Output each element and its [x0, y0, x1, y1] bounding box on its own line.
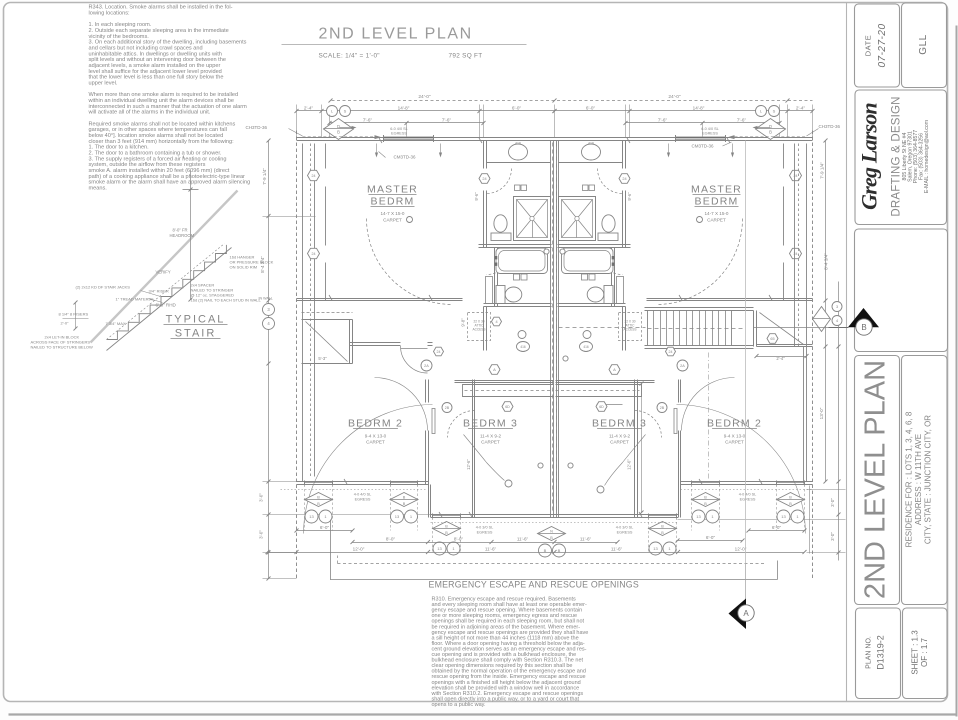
svg-text:11'-6": 11'-6": [485, 547, 497, 552]
stair detail steps: [107, 245, 227, 340]
window symbol bedrm2 left B: [390, 493, 418, 507]
circle 2B left: [442, 403, 452, 413]
interior dim line right bedrm2: [641, 384, 643, 513]
svg-text:EGRESS: EGRESS: [391, 131, 407, 135]
svg-text:HEADROOM: HEADROOM: [170, 233, 195, 238]
left unit master bath west wall: [483, 141, 485, 169]
svg-text:ADDRESS : W 11TH AVE: ADDRESS : W 11TH AVE: [914, 434, 923, 525]
svg-text:24: 24: [622, 177, 626, 181]
svg-text:CH3TD-36: CH3TD-36: [246, 125, 268, 130]
bottom wall bedrm2 right: [681, 481, 813, 483]
svg-text:D: D: [337, 124, 340, 129]
stair stringer lines: [107, 248, 232, 351]
svg-text:13'-0": 13'-0": [819, 407, 824, 419]
emergency bracket: [330, 520, 332, 580]
titleblock box sheet title 2ND LEVEL PLAN: [855, 356, 900, 605]
svg-text:STAIR: STAIR: [175, 328, 217, 340]
window symbol bedrm3 right: [649, 522, 677, 536]
right unit master bath west wall: [622, 141, 624, 169]
titleblock box firm: [855, 90, 947, 225]
titleblock box DATE: [855, 4, 900, 87]
marker A leader line: [745, 564, 747, 600]
hex symbol A right hall: [609, 365, 620, 375]
svg-text:14'-8": 14'-8": [398, 106, 410, 111]
svg-text:will activate all of the alarm: will activate all of the alarms in the i…: [88, 110, 211, 116]
left unit hall door arc: [401, 346, 428, 373]
svg-text:6'-8" RHD: 6'-8" RHD: [156, 303, 177, 308]
svg-text:E-MAIL : homedesign@aol.com: E-MAIL : homedesign@aol.com: [924, 120, 930, 193]
svg-text:opens to a public way.: opens to a public way.: [432, 702, 486, 708]
svg-text:BEDRM: BEDRM: [695, 196, 739, 208]
svg-text:13: 13: [696, 514, 701, 519]
left bedrm2 door swing arc: [304, 405, 433, 534]
svg-text:4: 4: [495, 320, 497, 324]
right closet door diagonal: [760, 313, 804, 345]
svg-text:OF : 1.7: OF : 1.7: [920, 638, 929, 667]
svg-text:4: 4: [836, 319, 838, 323]
svg-text:9'-6": 9'-6": [627, 192, 632, 201]
hall small circle right: [583, 331, 591, 339]
right unit bath2 door arc: [597, 249, 623, 275]
svg-text:CARPET: CARPET: [725, 440, 744, 445]
svg-text:12'-0": 12'-0": [353, 547, 365, 552]
left unit medicine cabinets: [515, 185, 521, 191]
svg-text:24: 24: [312, 252, 316, 256]
right wall extension to dims: [809, 486, 811, 554]
stair direction dashes: [648, 328, 746, 330]
stair down arrow: [597, 404, 623, 406]
bottom dim row B: [353, 542, 618, 544]
svg-text:BEDRM: BEDRM: [371, 196, 415, 208]
svg-text:CARPET: CARPET: [366, 440, 385, 445]
left unit washer dryer boxes: [514, 274, 520, 280]
svg-text:B: B: [789, 496, 792, 500]
party wall insulation dashes: [552, 143, 554, 513]
scan paper edge bottom: [9, 713, 957, 715]
svg-text:B: B: [317, 502, 320, 506]
window diamond top right: [756, 119, 786, 140]
svg-text:(2) 2x12 KD DF STAIR JACKS: (2) 2x12 KD DF STAIR JACKS: [76, 285, 131, 290]
svg-text:CH3TD-36: CH3TD-36: [819, 124, 841, 129]
right unit stairwell shaft: [556, 384, 642, 386]
svg-text:B: B: [403, 496, 406, 500]
svg-text:6'-0": 6'-0": [706, 535, 716, 540]
right unit tub: [562, 248, 614, 274]
left unit linen cabinet: [486, 277, 493, 304]
svg-text:upper level.: upper level.: [89, 80, 118, 86]
svg-text:8 1/4" 8 RISERS: 8 1/4" 8 RISERS: [59, 312, 89, 317]
svg-text:ACCESS: ACCESS: [623, 328, 636, 332]
svg-text:8'-0" FR: 8'-0" FR: [173, 228, 188, 233]
svg-text:14'-8": 14'-8": [693, 106, 705, 111]
outlet ticks: [379, 138, 382, 143]
section cut line A vertical: [745, 141, 747, 564]
svg-text:9-4 X 13-0: 9-4 X 13-0: [365, 434, 387, 439]
svg-text:2'-0": 2'-0": [61, 321, 70, 326]
svg-text:2'-4": 2'-4": [796, 106, 806, 111]
bottom wall bedrm3 left+right: [431, 514, 678, 516]
titleblock box plan no: [856, 608, 901, 699]
svg-text:2B: 2B: [660, 406, 665, 410]
svg-text:EGRESS: EGRESS: [477, 531, 493, 535]
left unit hall east wall: [483, 307, 485, 351]
hex 6D bedrm3 right: [596, 402, 607, 412]
section marker B black triangle: [848, 308, 879, 327]
svg-text:8'-4 3/4": 8'-4 3/4": [824, 253, 829, 270]
left unit bath door arc: [487, 169, 512, 194]
left unit bath bottom wall: [484, 303, 552, 305]
plan top exterior wall: [297, 137, 813, 139]
section cut line B horizontal: [559, 327, 646, 329]
svg-text:SCALE: 1/4" = 1'-0": SCALE: 1/4" = 1'-0": [319, 53, 380, 60]
dim row 2 right unit: [555, 110, 813, 112]
left unit master bedroom bottom wall: [297, 298, 463, 300]
window symbol bedrm2 left A: [305, 493, 333, 507]
window projection dashed lines: [304, 485, 306, 531]
svg-text:792 SQ FT: 792 SQ FT: [449, 53, 483, 60]
smoke/light circles left: [327, 106, 338, 117]
left bedrm3 door arc: [448, 411, 475, 438]
hex symbol 4 left hall: [492, 317, 502, 326]
svg-text:B: B: [704, 502, 707, 506]
small circles on walls: [538, 463, 543, 468]
right unit lav sink: [582, 144, 601, 160]
svg-text:lowing locations:: lowing locations:: [89, 11, 130, 17]
right unit stair walls: [645, 307, 754, 309]
right unit master bedroom door arc: [657, 219, 743, 305]
svg-text:7'-6": 7'-6": [737, 118, 747, 123]
svg-text:3'-0": 3'-0": [259, 530, 264, 539]
stair leader lines: [141, 291, 161, 297]
svg-text:7'-9 1/4": 7'-9 1/4": [262, 168, 267, 185]
smoke/light circles right: [756, 106, 767, 117]
svg-text:9'-8": 9'-8": [461, 318, 466, 327]
svg-text:24: 24: [482, 177, 486, 181]
titleblock box revisions empty: [855, 229, 948, 352]
svg-text:07-27-20: 07-27-20: [877, 23, 888, 67]
left unit attic access: [468, 313, 491, 341]
svg-text:24: 24: [669, 350, 673, 354]
left unit master bedroom door arc: [367, 219, 453, 305]
left unit hall wall above bedrm2: [350, 342, 401, 344]
svg-text:smoke alarm or the alarm shall: smoke alarm or the alarm shall have an a…: [89, 180, 251, 186]
svg-text:EGRESS: EGRESS: [355, 498, 371, 502]
svg-text:14-7 X 15-0: 14-7 X 15-0: [380, 211, 404, 216]
svg-text:B: B: [445, 531, 448, 535]
svg-text:11-4 X 9-2: 11-4 X 9-2: [480, 434, 502, 439]
right bedrm3 right wall: [634, 380, 636, 518]
svg-text:3: 3: [836, 305, 838, 309]
svg-text:416: 416: [520, 345, 526, 349]
window bedrm2 left B: [391, 481, 418, 483]
bedrm3 top walls: [455, 380, 554, 382]
svg-text:24: 24: [437, 350, 441, 354]
hall small circle left: [518, 331, 526, 339]
right bedrm2 east wall: [803, 347, 805, 484]
svg-text:BEDRM 2: BEDRM 2: [707, 418, 762, 430]
left bedrm2 right wall: [425, 380, 427, 403]
scan paper edge right: [956, 26, 958, 717]
svg-text:416: 416: [515, 142, 521, 146]
left bedrm2 door leaf: [432, 409, 435, 434]
svg-text:GLL: GLL: [918, 34, 929, 54]
svg-text:DATE: DATE: [864, 35, 873, 56]
svg-text:CARPET: CARPET: [383, 218, 402, 223]
hex symbol 65 right closet: [767, 334, 778, 344]
left unit bath door hex symbol: [479, 174, 490, 184]
svg-text:D1319-2: D1319-2: [876, 635, 886, 670]
svg-text:8'-0": 8'-0": [454, 537, 464, 542]
svg-text:8'-0": 8'-0": [386, 537, 396, 542]
window bedrm3 left: [433, 514, 461, 516]
right unit toilet 1: [602, 215, 615, 232]
svg-text:2A: 2A: [424, 364, 429, 368]
svg-text:DRAFTING & DESIGN: DRAFTING & DESIGN: [891, 96, 903, 216]
svg-text:A: A: [743, 609, 749, 618]
svg-text:RESIDENCE FOR : LOTS 1, 3, 4,: RESIDENCE FOR : LOTS 1, 3, 4, 6, 8: [905, 411, 914, 547]
emergency dashed boundary: [338, 563, 766, 565]
window diamond top left: [324, 119, 354, 140]
svg-text:3/4" RISER: 3/4" RISER: [149, 289, 169, 294]
bedrm3 leader squiggle right: [605, 435, 646, 486]
hex 24 left hall: [434, 347, 444, 356]
svg-text:SHEET : 1.3: SHEET : 1.3: [911, 630, 920, 675]
svg-text:7'-6": 7'-6": [363, 118, 373, 123]
left dimension chain: [268, 141, 270, 579]
left chain circles 3 4: [263, 304, 275, 316]
right unit medicine cabinets: [589, 185, 595, 191]
right bedrm2 left wall: [678, 380, 680, 403]
right chain diamond: [813, 307, 831, 332]
section marker B circle: [856, 319, 872, 335]
svg-text:CARPET: CARPET: [481, 440, 500, 445]
right unit attic access: [619, 313, 642, 341]
circle 2A left: [421, 360, 432, 371]
svg-text:EMERGENCY ESCAPE AND RESCUE OP: EMERGENCY ESCAPE AND RESCUE OPENINGS: [429, 580, 639, 590]
right bedrm2 door leaf: [674, 409, 677, 434]
dim row 3 right unit: [626, 122, 780, 124]
window symbol party wall center: [538, 527, 566, 541]
svg-text:11-4 X 9-2: 11-4 X 9-2: [609, 434, 631, 439]
svg-text:6'-0": 6'-0": [586, 106, 596, 111]
hex symbol A left hall: [489, 365, 500, 375]
window bedrm2 right B: [777, 481, 805, 483]
svg-text:14-7 X 15-0: 14-7 X 15-0: [704, 211, 728, 216]
svg-text:B: B: [337, 129, 340, 134]
svg-text:NAILED TO STRUCTURE BELOW: NAILED TO STRUCTURE BELOW: [31, 345, 94, 350]
svg-text:2'-4": 2'-4": [304, 106, 314, 111]
svg-text:6'-0": 6'-0": [512, 106, 522, 111]
svg-text:2ND LEVEL PLAN: 2ND LEVEL PLAN: [319, 26, 473, 43]
svg-text:12'-6": 12'-6": [466, 459, 471, 470]
right unit shower: [559, 197, 596, 241]
svg-text:S: S: [773, 108, 776, 113]
window symbol bedrm3 left: [433, 522, 461, 536]
svg-text:N: N: [550, 530, 553, 534]
svg-text:ACCESS: ACCESS: [472, 328, 485, 332]
titleblock box project address: [902, 356, 948, 605]
svg-text:B: B: [550, 536, 553, 540]
svg-text:TYPICAL: TYPICAL: [166, 314, 226, 326]
svg-text:4-0 3/0 SL: 4-0 3/0 SL: [616, 526, 634, 530]
svg-text:12'-0": 12'-0": [735, 547, 747, 552]
svg-text:24'-0": 24'-0": [668, 94, 681, 100]
left closet door diagonal: [306, 322, 348, 362]
svg-text:6D: 6D: [505, 405, 510, 409]
window W1 top wall left unit: [384, 137, 434, 139]
left unit bath2 door arc: [487, 249, 513, 275]
svg-text:6D: 6D: [599, 405, 604, 409]
svg-text:13: 13: [781, 514, 786, 519]
left bedrm3 left wall: [472, 380, 474, 518]
right unit stair treads: [648, 311, 732, 346]
bottom dim row C: [268, 552, 805, 554]
svg-text:65: 65: [770, 337, 774, 341]
svg-text:2B: 2B: [445, 406, 450, 410]
svg-text:B: B: [789, 502, 792, 506]
right bedrm3 door arc: [635, 411, 662, 438]
svg-text:B: B: [661, 525, 664, 529]
wall band hex symbols left: [308, 170, 320, 180]
svg-text:BEDRM 3: BEDRM 3: [592, 418, 647, 430]
svg-text:24: 24: [312, 174, 316, 178]
svg-text:416: 416: [588, 142, 594, 146]
svg-text:EGRESS: EGRESS: [617, 531, 633, 535]
bedrm2 centerline dashed right: [708, 353, 710, 482]
svg-text:3'-0": 3'-0": [830, 498, 835, 507]
left unit bath divider wall: [479, 244, 552, 246]
hall ceiling light right: [580, 342, 593, 352]
right unit master bedroom bottom wall: [647, 298, 813, 300]
left exterior wall band: [296, 131, 298, 579]
svg-text:5'-3": 5'-3": [318, 356, 327, 361]
svg-text:EGRESS: EGRESS: [702, 131, 718, 135]
svg-text:PLAN NO.: PLAN NO.: [866, 636, 873, 669]
circle 2B right: [657, 403, 667, 413]
svg-text:11'-6": 11'-6": [517, 537, 529, 542]
svg-text:4-0 4/0 SL: 4-0 4/0 SL: [354, 493, 372, 497]
svg-text:7 3/4" MAX: 7 3/4" MAX: [106, 321, 126, 326]
right exterior wall band: [812, 131, 814, 579]
title underline: [282, 44, 527, 46]
right chain extension lines: [807, 489, 846, 491]
right unit bath door hex symbol: [619, 174, 630, 184]
svg-text:MASTER: MASTER: [691, 184, 742, 196]
right bedrm2 door swing arc: [682, 378, 735, 431]
right unit hall east wall: [622, 307, 624, 351]
svg-text:416: 416: [583, 345, 589, 349]
svg-text:16d (2) NAIL TO EACH STUD IN W: 16d (2) NAIL TO EACH STUD IN WALL: [191, 298, 262, 303]
right unit vanity counter: [559, 162, 623, 164]
svg-text:B: B: [769, 129, 772, 134]
svg-text:CARPET: CARPET: [707, 218, 726, 223]
circle 2A right: [677, 360, 688, 371]
svg-text:3'-0": 3'-0": [830, 532, 835, 541]
svg-text:24'-0": 24'-0": [418, 94, 431, 100]
titleblock box GLL: [902, 3, 947, 88]
window bedrm2 left A: [305, 481, 333, 483]
dim extension ticks top: [296, 105, 298, 138]
svg-text:Greg Larson: Greg Larson: [857, 103, 882, 210]
svg-text:means.: means.: [89, 185, 108, 191]
right unit linen cabinet: [617, 277, 624, 304]
window symbol bedrm2 right A: [692, 493, 720, 507]
right unit toilet 2: [587, 287, 604, 302]
svg-text:ON SOLID RIM: ON SOLID RIM: [230, 265, 258, 270]
dim row 2 left unit: [297, 110, 555, 112]
bottom wall bedrm2 left: [297, 481, 429, 483]
step wall left: [428, 485, 430, 518]
hall ceiling light left: [517, 342, 530, 352]
svg-text:13: 13: [437, 546, 442, 551]
left chain extension lines: [263, 216, 316, 218]
svg-text:B: B: [861, 323, 866, 332]
svg-text:MASTER: MASTER: [367, 184, 418, 196]
svg-text:CITY, STATE : JUNCTION CITY, O: CITY, STATE : JUNCTION CITY, OR: [924, 415, 933, 544]
svg-text:B: B: [445, 525, 448, 529]
svg-text:CM3TD-36: CM3TD-36: [393, 155, 416, 160]
window W1 top wall right unit: [676, 137, 726, 139]
right unit bath bottom wall: [558, 303, 626, 305]
svg-text:13: 13: [395, 514, 400, 519]
left unit hall door header: [401, 348, 428, 350]
svg-text:CM3TD-36: CM3TD-36: [691, 144, 714, 149]
right dimension chain: [825, 141, 827, 482]
svg-text:EGRESS: EGRESS: [740, 498, 756, 502]
title block divider: [846, 3, 848, 702]
stair headroom dim: [190, 171, 192, 300]
svg-text:VERIFY: VERIFY: [156, 270, 171, 275]
svg-text:A: A: [613, 367, 616, 372]
stair detail grade line: [91, 191, 238, 343]
svg-text:7'-6": 7'-6": [658, 118, 668, 123]
svg-text:BEDRM 2: BEDRM 2: [348, 418, 403, 430]
overall dim 24-0 dashed line: [332, 100, 813, 102]
left unit shower: [514, 197, 551, 241]
svg-text:A: A: [493, 367, 496, 372]
titleblock box sheet no: [903, 608, 948, 699]
left unit bedrm2 closet: [302, 312, 353, 314]
bottom dim row A left: [297, 530, 353, 532]
right unit closet: [757, 344, 813, 346]
party wall: [550, 141, 552, 518]
svg-text:3'-0": 3'-0": [259, 493, 264, 502]
svg-text:6'-0": 6'-0": [320, 525, 330, 530]
svg-text:11'-6": 11'-6": [611, 547, 623, 552]
stair small dims: [75, 303, 77, 329]
svg-text:2A: 2A: [680, 364, 685, 368]
hex 6D bedrm3 left: [502, 402, 513, 412]
svg-text:7'-6": 7'-6": [442, 118, 452, 123]
svg-text:2ND LEVEL PLAN: 2ND LEVEL PLAN: [860, 360, 892, 599]
svg-text:12'-6": 12'-6": [627, 459, 632, 470]
right closet inner face wall: [783, 144, 785, 169]
right chain circles: [832, 302, 842, 312]
left unit toilet 2: [505, 287, 522, 302]
bedrm3 leader squiggle left: [464, 435, 505, 481]
svg-text:BEDRM 3: BEDRM 3: [463, 418, 518, 430]
window symbol bedrm2 right B: [777, 493, 805, 507]
svg-text:7'-9 1/4": 7'-9 1/4": [820, 162, 825, 179]
section marker A: [729, 599, 747, 630]
svg-text:9'-6": 9'-6": [474, 192, 479, 201]
svg-text:B: B: [403, 502, 406, 506]
hex 24 right hall: [666, 347, 676, 356]
svg-text:11'-6": 11'-6": [580, 537, 592, 542]
dotted lines below bottom walls: [281, 489, 428, 491]
svg-text:B: B: [704, 496, 707, 500]
svg-text:4-0 4/0 SL: 4-0 4/0 SL: [739, 493, 757, 497]
